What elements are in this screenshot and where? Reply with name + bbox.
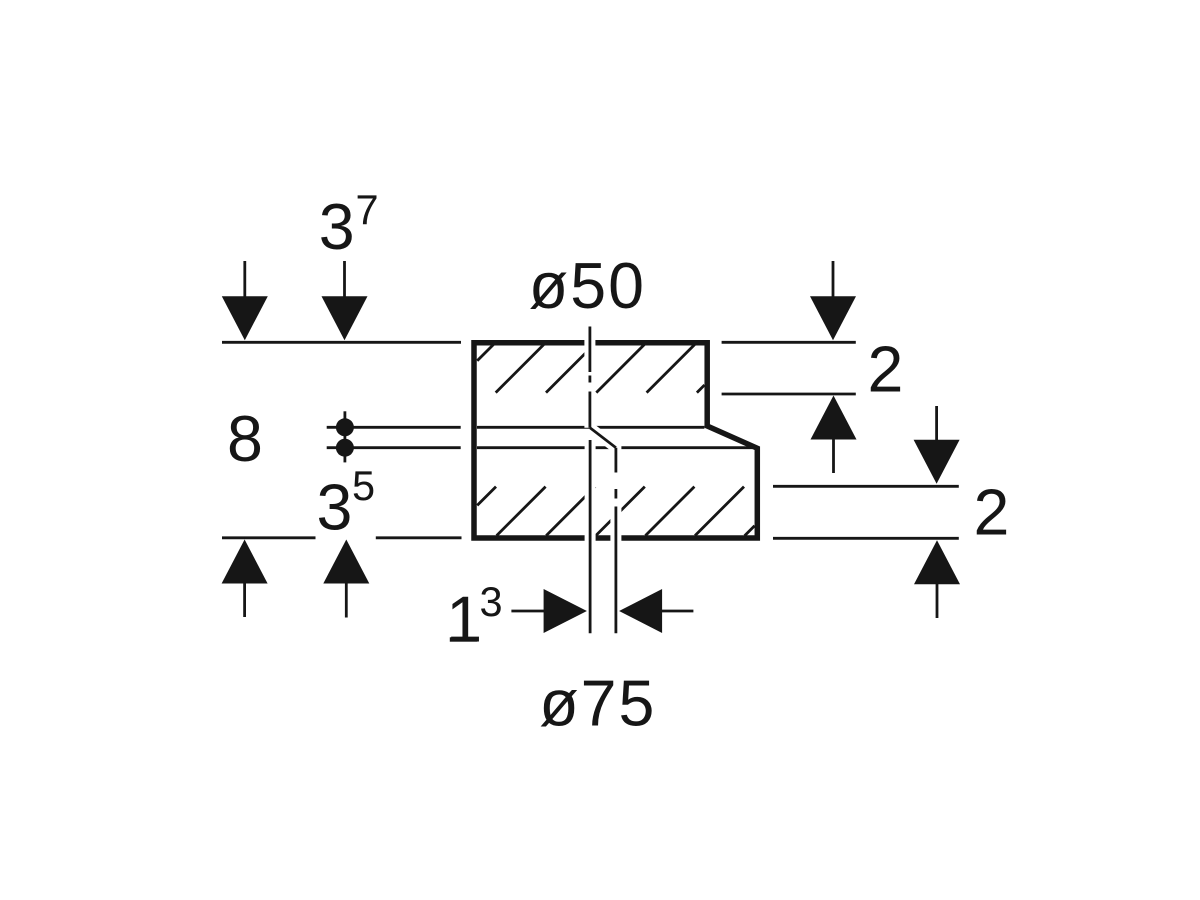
label 2 right upper (868, 334, 904, 406)
dim 1.3 right stem and arrow (619, 589, 693, 633)
svg-text:8: 8 (227, 403, 263, 475)
centerline jog diagonal (590, 428, 616, 448)
label 1 superscript 3 (446, 578, 502, 656)
datum target line through dots (343, 411, 346, 462)
centerline ø75 dash-dot (615, 448, 618, 634)
dim 1.3 left stem and arrow (511, 589, 587, 633)
down arrow 2 top left (322, 261, 368, 340)
bore line lower (477, 446, 755, 449)
up arrow 2 bottom left (323, 540, 369, 618)
svg-text:5: 5 (352, 462, 375, 509)
datum dot upper (336, 418, 354, 436)
down arrow 1 top left (222, 261, 268, 340)
dimension line bottom left (two segments around 3.5 text) (222, 536, 462, 539)
svg-text:ø75: ø75 (539, 667, 656, 739)
up arrow right upper (811, 396, 857, 474)
svg-text:3: 3 (480, 578, 503, 625)
svg-text:2: 2 (974, 477, 1010, 549)
body outline (474, 343, 757, 538)
label ø50 (529, 250, 646, 322)
svg-text:ø50: ø50 (529, 250, 646, 322)
svg-text:3: 3 (317, 472, 353, 544)
centerline ø50 dash-dot (589, 327, 592, 428)
dimension line right upper pair (722, 342, 856, 394)
centerline white casing (590, 324, 616, 634)
svg-text:7: 7 (356, 186, 379, 233)
svg-text:3: 3 (319, 191, 355, 263)
hatch lower band (477, 487, 754, 536)
dimension line top left (222, 341, 461, 344)
svg-text:1: 1 (446, 584, 482, 656)
label ø75 (539, 667, 656, 739)
extension line left of 1.3 dim (589, 440, 592, 633)
down arrow right lower (914, 406, 960, 484)
bore line upper (477, 426, 704, 429)
down arrow right upper (810, 261, 856, 340)
label 3 superscript 7 (319, 186, 379, 263)
up arrow 1 bottom left (222, 540, 268, 618)
dim 8 upper leader (327, 426, 461, 429)
dim 8 lower leader (327, 446, 461, 449)
datum dot lower (336, 439, 354, 457)
label 3 superscript 5 (317, 462, 376, 544)
label 2 right lower (974, 477, 1010, 549)
label 8 (227, 403, 263, 475)
svg-text:2: 2 (868, 334, 904, 406)
hatch upper band (477, 344, 704, 393)
dimension line right lower pair (773, 486, 959, 538)
up arrow right lower (914, 540, 960, 618)
